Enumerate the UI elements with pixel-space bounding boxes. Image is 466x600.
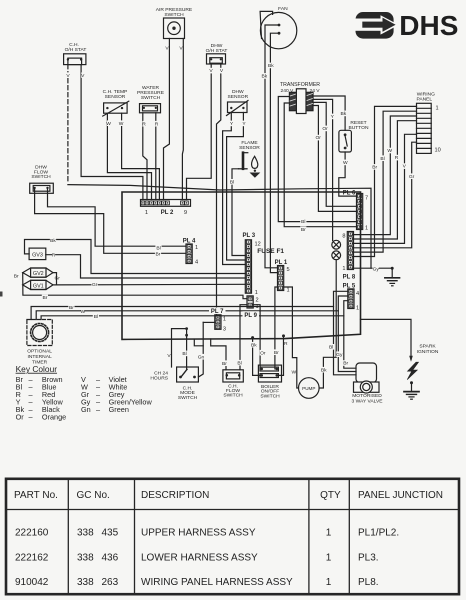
svg-text:R: R bbox=[284, 341, 288, 347]
svg-text:PL 2: PL 2 bbox=[161, 210, 174, 216]
svg-text:Bk: Bk bbox=[268, 63, 274, 69]
connector PL4 bbox=[186, 244, 192, 264]
svg-text:PL 9: PL 9 bbox=[244, 313, 257, 319]
gas valve GV1 bbox=[23, 280, 53, 289]
svg-text:1: 1 bbox=[365, 226, 368, 232]
wire reset W to PL6 pin7 bbox=[339, 152, 357, 196]
svg-text:PL1/PL2.: PL1/PL2. bbox=[358, 528, 399, 539]
svg-text:SENSOR: SENSOR bbox=[239, 145, 260, 151]
svg-text:Bl: Bl bbox=[237, 360, 241, 366]
wire Gy PL5 to valve bbox=[338, 296, 356, 372]
label Gn bbox=[198, 354, 205, 360]
svg-text:W: W bbox=[343, 160, 348, 166]
label Bl chflow bbox=[236, 360, 242, 366]
parts table frame bbox=[6, 479, 459, 594]
svg-text:Bk: Bk bbox=[50, 238, 56, 244]
svg-text:PL 3: PL 3 bbox=[243, 233, 256, 239]
wire C.H. O/H STAT left V (dashed) bbox=[67, 65, 69, 181]
wire Bl PL9 pin1 to CH flow switch bbox=[240, 305, 247, 370]
label W left bbox=[106, 120, 111, 126]
junction dot earth bbox=[391, 267, 394, 270]
label Br boiler bbox=[273, 349, 279, 355]
label Bl mode bbox=[181, 351, 187, 357]
label Br PL4 bbox=[155, 251, 161, 257]
label W panel bbox=[387, 148, 392, 154]
svg-text:10: 10 bbox=[435, 148, 441, 154]
svg-text:R: R bbox=[52, 253, 56, 259]
svg-text:Bl: Bl bbox=[380, 156, 384, 162]
svg-text:QTY: QTY bbox=[320, 490, 341, 501]
label Bl timer bbox=[93, 314, 99, 320]
wire GV Br loop to PL9 pin2 bbox=[23, 273, 247, 299]
label Gr panel bbox=[409, 173, 415, 179]
label Gr GV2 bbox=[54, 275, 60, 281]
label Br timer bbox=[68, 305, 74, 311]
wire DHW O/H right down to PL7 pin1 bbox=[217, 64, 221, 315]
svg-text:UPPER HARNESS ASSY: UPPER HARNESS ASSY bbox=[141, 528, 256, 539]
svg-text:Key Colour: Key Colour bbox=[16, 364, 58, 374]
label V panel bbox=[403, 163, 407, 169]
thermostat C.H. O/H STAT bbox=[64, 54, 86, 65]
svg-text:Gy: Gy bbox=[373, 266, 380, 272]
svg-text:PL8.: PL8. bbox=[358, 577, 379, 588]
wire GV3 R to PL3 pin9 bbox=[46, 255, 246, 278]
svg-text:SWITCH: SWITCH bbox=[31, 174, 51, 180]
svg-text:Bl: Bl bbox=[230, 179, 234, 185]
wire water switch left R to PL2 pin2 bbox=[143, 113, 147, 200]
wire R to boiler switch bbox=[277, 336, 284, 376]
wire transformer 24V Or to PL6 pin4 bbox=[313, 106, 357, 212]
junction dot Bk bbox=[251, 336, 254, 339]
table data rows bbox=[15, 528, 399, 589]
wire timer Bl bbox=[41, 316, 344, 320]
svg-text:PUMP: PUMP bbox=[302, 386, 315, 391]
svg-text:338: 338 bbox=[77, 528, 94, 539]
svg-text:Bl: Bl bbox=[182, 351, 186, 357]
main control board outline / mains loop bbox=[122, 192, 361, 339]
connector PL3 bbox=[245, 240, 251, 293]
wire fan Bk left to PL1 pin5 bbox=[265, 25, 279, 268]
transformer T1 bbox=[289, 89, 313, 114]
reset button bbox=[339, 130, 352, 152]
wire panel pin1 Br to PL8 bbox=[353, 106, 417, 256]
svg-text:Gn: Gn bbox=[81, 405, 91, 414]
svg-text:PART No.: PART No. bbox=[14, 490, 58, 501]
svg-text:W: W bbox=[291, 369, 296, 375]
svg-text:Or: Or bbox=[322, 126, 328, 132]
label V air left bbox=[165, 45, 169, 51]
burner symbol bbox=[250, 170, 261, 178]
flame symbol bbox=[252, 156, 258, 168]
label Br GV2 bbox=[13, 273, 19, 279]
fan bbox=[260, 11, 297, 48]
label Bl PL4 bbox=[155, 245, 161, 251]
wire fan Bk right to PL1 pin4 bbox=[270, 33, 279, 272]
svg-text:Br: Br bbox=[156, 251, 161, 257]
wire flow switch right Bl to PL4 pin1 bbox=[48, 188, 187, 246]
label W reset bbox=[343, 160, 348, 166]
svg-text:Gr: Gr bbox=[409, 174, 415, 180]
label Y 24V bbox=[331, 114, 335, 120]
svg-text:Orange: Orange bbox=[42, 413, 66, 422]
label Gy bbox=[373, 266, 380, 272]
svg-text:Bk: Bk bbox=[251, 342, 257, 348]
svg-text:SWITCH: SWITCH bbox=[141, 95, 161, 101]
svg-text:Or: Or bbox=[16, 413, 25, 422]
svg-text:436: 436 bbox=[102, 552, 119, 563]
ground symbol spark bbox=[404, 392, 419, 400]
wire Bl to mode switch bbox=[186, 329, 188, 370]
scan artifact marks bbox=[0, 292, 3, 297]
junction dots mode switch bbox=[185, 327, 188, 330]
wire Gn to mode switch bbox=[198, 322, 203, 377]
svg-text:W: W bbox=[387, 148, 392, 154]
wire panel pin3 W to PL8 pin8 bbox=[353, 116, 417, 235]
svg-text:PL 8: PL 8 bbox=[343, 275, 356, 281]
svg-text:2: 2 bbox=[256, 298, 259, 304]
svg-text:DESCRIPTION: DESCRIPTION bbox=[141, 490, 209, 501]
svg-text:W: W bbox=[119, 121, 124, 127]
svg-text:Bk: Bk bbox=[341, 111, 347, 117]
label Bk fan right bbox=[268, 63, 275, 69]
svg-text:3 WAY VALVE: 3 WAY VALVE bbox=[352, 398, 384, 404]
svg-text:Or: Or bbox=[260, 350, 266, 356]
svg-text:1: 1 bbox=[326, 577, 332, 588]
svg-text:IGNITION: IGNITION bbox=[417, 349, 439, 355]
label Bk pump bbox=[321, 367, 328, 373]
svg-text:GV2: GV2 bbox=[33, 271, 44, 277]
wire air switch right V to PL2 pin8 bbox=[181, 39, 184, 200]
svg-text:5: 5 bbox=[287, 267, 290, 273]
wire transformer 240V Bl to PL6 pin2 bbox=[278, 97, 356, 222]
pump bbox=[299, 378, 320, 399]
svg-text:PANEL: PANEL bbox=[416, 96, 432, 102]
wire timer W bbox=[36, 311, 338, 320]
wire C.H. O/H STAT right V to PL2 pin1 bbox=[81, 65, 143, 200]
wire GV3 Bk to PL3 pin8 bbox=[25, 240, 246, 274]
svg-text:1: 1 bbox=[326, 552, 332, 563]
label Y right bbox=[242, 121, 246, 127]
svg-text:Gr: Gr bbox=[92, 282, 98, 288]
svg-text:DHS: DHS bbox=[399, 10, 458, 41]
svg-text:R: R bbox=[395, 155, 399, 161]
svg-text:Or: Or bbox=[315, 135, 321, 141]
svg-text:Br: Br bbox=[42, 295, 47, 301]
svg-text:FUSE F1: FUSE F1 bbox=[257, 248, 284, 255]
label W pump bbox=[291, 369, 296, 375]
svg-text:Bk: Bk bbox=[321, 367, 327, 373]
wire hook to Gn bbox=[194, 339, 203, 346]
label R boiler bbox=[284, 340, 288, 346]
dhw flow switch bbox=[30, 183, 54, 193]
flame sensor electrode bbox=[239, 153, 248, 169]
svg-text:SWITCH: SWITCH bbox=[178, 395, 198, 401]
thermostat DHW O/H STAT bbox=[207, 54, 226, 64]
DHS logo mark bbox=[356, 12, 399, 39]
wire Br PL5 to valve bbox=[344, 301, 356, 369]
svg-text:LOWER HARNESS ASSY: LOWER HARNESS ASSY bbox=[141, 552, 258, 563]
switch C.H. FLOW SWITCH bbox=[223, 370, 243, 382]
svg-text:435: 435 bbox=[102, 528, 119, 539]
wire temp sensor left W to PL2 pin3 bbox=[107, 113, 151, 199]
svg-text:R: R bbox=[142, 121, 146, 127]
svg-text:R: R bbox=[155, 121, 159, 127]
label V air right bbox=[179, 45, 183, 51]
svg-text:Bk: Bk bbox=[262, 74, 268, 80]
svg-text:PL 7: PL 7 bbox=[211, 309, 224, 315]
svg-text:1: 1 bbox=[342, 266, 345, 272]
wire spark ignition bbox=[361, 319, 412, 359]
label Bk 24V bbox=[340, 111, 347, 117]
label V left bbox=[66, 72, 70, 78]
wire transformer 24V Y to fuse F1 bbox=[313, 99, 333, 240]
wire Bl PL5 to valve bbox=[334, 291, 357, 375]
spark arrowhead bbox=[409, 356, 413, 362]
svg-text:GC No.: GC No. bbox=[77, 490, 110, 501]
svg-text:Br: Br bbox=[69, 305, 74, 311]
wire PL7 pin2 stub bbox=[203, 321, 215, 323]
label Bk GV3 bbox=[50, 238, 57, 244]
label Gy valve bbox=[336, 351, 343, 357]
svg-text:W: W bbox=[106, 121, 111, 127]
switch BOILER ON/OFF bbox=[258, 365, 281, 382]
wire long bus V to earth bbox=[68, 185, 371, 269]
wire Bk fuse to pump bbox=[319, 260, 336, 388]
svg-text:8: 8 bbox=[342, 234, 345, 240]
svg-text:Gr: Gr bbox=[54, 276, 60, 282]
svg-text:1: 1 bbox=[145, 210, 148, 216]
wire Gy earth from PL8 pin1 bbox=[353, 267, 392, 269]
wire GV2 right stub bbox=[53, 273, 57, 285]
label Bl valve bbox=[328, 344, 334, 350]
svg-text:INTERNAL: INTERNAL bbox=[28, 354, 52, 360]
svg-text:1: 1 bbox=[356, 306, 359, 312]
label Br valve bbox=[343, 360, 349, 366]
wire Or PL9 pin1 to boiler switch bbox=[253, 305, 261, 369]
svg-text:WIRING PANEL HARNESS ASSY: WIRING PANEL HARNESS ASSY bbox=[141, 577, 293, 588]
wire panel pin9 Gr to PL8 bbox=[353, 142, 417, 248]
svg-text:SWITCH: SWITCH bbox=[223, 393, 243, 399]
svg-text:BUTTON: BUTTON bbox=[348, 125, 368, 131]
wire V to mode switch bbox=[172, 329, 187, 367]
label V right bbox=[81, 72, 85, 78]
switch C.H. MODE SWITCH bbox=[177, 367, 199, 382]
svg-text:Green: Green bbox=[109, 405, 129, 414]
svg-text:MOTORISED: MOTORISED bbox=[352, 393, 382, 399]
svg-text:Gy: Gy bbox=[336, 352, 343, 358]
key colour column 1 bbox=[16, 375, 67, 422]
svg-text:Bl: Bl bbox=[94, 314, 98, 320]
wiring panel connector bbox=[417, 103, 432, 153]
svg-text:W: W bbox=[80, 309, 85, 315]
wire flow switch left Br to PL4 pin3 bbox=[35, 188, 186, 253]
label Br chflow bbox=[221, 360, 227, 366]
label Br loop bbox=[42, 295, 48, 301]
label Or boiler bbox=[260, 350, 266, 356]
wire air switch left V to PL2 pin6 bbox=[164, 39, 170, 200]
svg-text:338: 338 bbox=[77, 552, 94, 563]
wire earth stem bbox=[391, 268, 393, 277]
svg-text:Bl: Bl bbox=[156, 246, 160, 252]
svg-text:SENSOR: SENSOR bbox=[105, 94, 126, 100]
gas valve GV3 bbox=[29, 248, 46, 260]
svg-text:Br: Br bbox=[14, 274, 19, 280]
lightning bolt bbox=[407, 362, 418, 379]
motorised 3 way valve bbox=[354, 363, 380, 393]
svg-text:1: 1 bbox=[255, 290, 258, 296]
wire DHW sensor right Y to PL3 pin5 bbox=[227, 113, 246, 261]
svg-text:Br: Br bbox=[222, 361, 227, 367]
svg-text:12: 12 bbox=[255, 242, 261, 248]
svg-text:338: 338 bbox=[77, 577, 94, 588]
svg-text:O/H STAT: O/H STAT bbox=[206, 48, 228, 54]
wire flame sensor Bl to PL3 pin4 bbox=[232, 169, 245, 256]
label Gr bus bbox=[92, 282, 98, 288]
label R right bbox=[155, 121, 159, 127]
label Br 240V bbox=[300, 226, 306, 232]
svg-text:SWITCH: SWITCH bbox=[260, 393, 280, 399]
table header row bbox=[14, 490, 443, 501]
svg-text:1: 1 bbox=[195, 245, 198, 251]
junction dot R bbox=[282, 334, 285, 337]
connector PL9 label bbox=[243, 311, 260, 319]
wire panel pin7 V to PL8 bbox=[353, 134, 417, 243]
svg-text:FAN: FAN bbox=[278, 6, 288, 12]
connector PL8 bbox=[347, 232, 353, 270]
svg-text:Bl: Bl bbox=[329, 344, 333, 350]
svg-text:PL 6: PL 6 bbox=[343, 191, 356, 197]
svg-text:4: 4 bbox=[356, 291, 359, 297]
label Bk boiler bbox=[251, 342, 258, 348]
wire transformer 24V Or to PL6 pin5 bbox=[313, 102, 357, 206]
wire Br to CH flow switch bbox=[211, 339, 226, 370]
label V dhw right bbox=[220, 68, 224, 74]
wire spark ground stem bbox=[411, 383, 413, 392]
svg-text:SPARK: SPARK bbox=[419, 344, 436, 350]
svg-text:GV3: GV3 bbox=[32, 252, 43, 258]
svg-text:SENSOR: SENSOR bbox=[227, 94, 248, 100]
connector PL5 bbox=[348, 289, 354, 309]
svg-text:222162: 222162 bbox=[15, 552, 49, 563]
wire temp sensor right W to PL2 pin5 bbox=[122, 113, 160, 199]
label V dhw left bbox=[209, 68, 213, 74]
label R panel bbox=[395, 155, 399, 161]
wire DHW sensor left Y to PL3 pin6 bbox=[223, 113, 246, 265]
wire W to pump bbox=[284, 287, 299, 388]
svg-text:PANEL JUNCTION: PANEL JUNCTION bbox=[358, 490, 443, 501]
wire panel pin4 R to PL8 bbox=[353, 121, 417, 239]
connector PL2 bbox=[141, 200, 191, 207]
wire transformer 24V Bk to reset button bbox=[313, 96, 345, 130]
air pressure switch bbox=[164, 18, 185, 39]
svg-text:1: 1 bbox=[223, 317, 226, 323]
label Bl panel bbox=[379, 155, 385, 161]
svg-text:1: 1 bbox=[287, 288, 290, 294]
thermistor C.H. TEMP SENSOR bbox=[103, 101, 129, 116]
svg-text:Br: Br bbox=[274, 350, 279, 356]
gas valve GV2 bbox=[23, 268, 53, 277]
svg-text:Bl: Bl bbox=[301, 219, 305, 225]
svg-text:1: 1 bbox=[326, 528, 332, 539]
connector PL7 bbox=[215, 315, 221, 330]
svg-text:222160: 222160 bbox=[15, 528, 49, 539]
wire Br PL1 pin1 to boiler switch bbox=[275, 287, 278, 369]
label V mode bbox=[167, 353, 171, 359]
svg-text:O/H STAT: O/H STAT bbox=[65, 47, 87, 53]
svg-text:HOURS: HOURS bbox=[150, 375, 168, 381]
label W timer bbox=[80, 309, 85, 315]
label Or 24V b bbox=[315, 135, 321, 141]
wire timer Br bbox=[31, 307, 333, 320]
svg-text:9: 9 bbox=[184, 210, 187, 216]
wire panel pin2 Bl to PL8 bbox=[353, 111, 417, 252]
wire water switch right R to PL2 pin4 bbox=[155, 113, 157, 200]
svg-text:Br: Br bbox=[301, 227, 306, 233]
label R left bbox=[142, 121, 146, 127]
svg-text:PL3.: PL3. bbox=[358, 552, 379, 563]
label Y left bbox=[230, 121, 234, 127]
svg-text:1: 1 bbox=[436, 106, 439, 112]
label Bl flame bbox=[229, 179, 235, 185]
svg-text:3: 3 bbox=[223, 327, 226, 333]
svg-text:Br: Br bbox=[372, 165, 377, 171]
svg-text:263: 263 bbox=[102, 577, 119, 588]
svg-text:SWITCH: SWITCH bbox=[164, 12, 184, 18]
svg-text:OPTIONAL: OPTIONAL bbox=[27, 349, 52, 355]
key colour column 2 bbox=[81, 375, 152, 414]
svg-text:TRANSFORMER: TRANSFORMER bbox=[280, 82, 320, 88]
svg-text:GV1: GV1 bbox=[33, 283, 44, 289]
svg-text:Br: Br bbox=[343, 361, 348, 367]
label R GV3 bbox=[52, 252, 56, 258]
label Br panel bbox=[372, 164, 378, 170]
thermistor DHW SENSOR bbox=[227, 101, 249, 116]
fuse F1 bbox=[332, 240, 341, 259]
ground symbol PL8 bbox=[385, 278, 400, 286]
water pressure switch bbox=[140, 104, 161, 113]
connector PL6 bbox=[357, 194, 363, 230]
svg-text:4: 4 bbox=[195, 260, 198, 266]
wire Bk to boiler switch bbox=[253, 338, 262, 376]
svg-text:7: 7 bbox=[365, 196, 368, 202]
label Bl 240V bbox=[300, 218, 306, 224]
connector PL1 bbox=[278, 266, 284, 291]
connector PL7 label bbox=[209, 308, 226, 316]
junction dot spark bbox=[410, 381, 413, 384]
optional internal timer bbox=[27, 320, 52, 346]
wire DHW O/H left to PL2 pin9 bbox=[187, 64, 212, 200]
wire transformer 240V Br to PL6 pin1 bbox=[284, 103, 356, 227]
svg-text:910042: 910042 bbox=[15, 577, 49, 588]
label Bk fan left bbox=[261, 73, 268, 79]
svg-text:Gn: Gn bbox=[198, 354, 205, 360]
connector PL9 bbox=[247, 296, 253, 308]
wire GV1 Gr to PL3 pin10 bbox=[53, 283, 245, 286]
label Or 24V a bbox=[322, 126, 328, 132]
label W right bbox=[119, 120, 124, 126]
